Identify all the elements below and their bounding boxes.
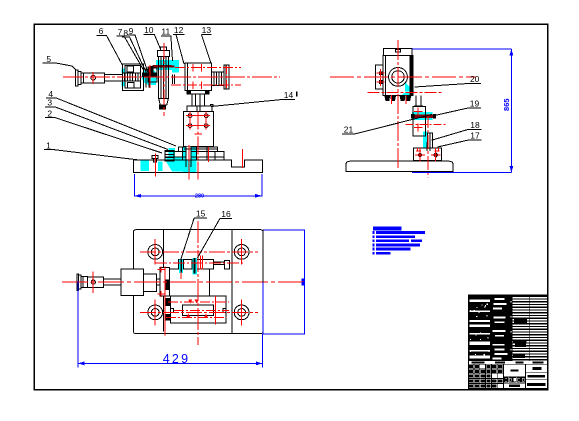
svg-text:280: 280 (195, 194, 204, 200)
svg-text:1: 1 (46, 140, 51, 150)
svg-text:21: 21 (344, 125, 354, 135)
svg-text:20: 20 (470, 74, 480, 84)
svg-text:6: 6 (99, 26, 104, 36)
svg-text:19: 19 (470, 99, 480, 109)
svg-text:14: 14 (284, 90, 294, 100)
svg-text:16: 16 (221, 209, 231, 219)
svg-text:7: 7 (118, 27, 123, 37)
svg-text:11: 11 (161, 27, 170, 37)
svg-text:5: 5 (46, 54, 51, 64)
svg-text:3: 3 (47, 98, 52, 108)
svg-text:10: 10 (144, 25, 154, 35)
svg-text:18: 18 (470, 120, 480, 130)
svg-text:9: 9 (129, 26, 134, 36)
svg-text:17: 17 (470, 131, 480, 141)
svg-text:865: 865 (502, 98, 511, 111)
svg-text:12: 12 (174, 25, 184, 35)
svg-text:2: 2 (47, 108, 52, 118)
svg-text:15: 15 (196, 209, 206, 219)
svg-text:429: 429 (163, 352, 190, 366)
svg-text:13: 13 (202, 25, 212, 35)
